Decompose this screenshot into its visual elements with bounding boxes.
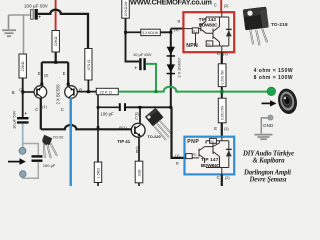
svg-text:C: C (135, 115, 138, 120)
svg-text:E: E (217, 51, 220, 56)
svg-text:(1): (1) (42, 105, 47, 109)
svg-text:(1): (1) (223, 52, 228, 56)
wire fb tap down to R5 (97, 95, 99, 162)
transistor Q2 BC556 (65, 86, 78, 99)
wire Q1 collector to TIP41 base (hop over blue) (41, 98, 132, 129)
resistor R1 22K (tail) (52, 31, 59, 53)
svg-text:8 ohm = 100W: 8 ohm = 100W (254, 75, 293, 81)
transistor Q1 BC556 (34, 86, 47, 99)
svg-text:DIY Audio Türkiye: DIY Audio Türkiye (242, 150, 294, 157)
svg-text:+: + (24, 111, 27, 116)
svg-text:(1): (1) (175, 154, 179, 158)
wire R3 to fb node (77, 80, 96, 92)
capacitor C4 10uF 63V (133, 52, 152, 71)
svg-text:(3): (3) (44, 74, 49, 78)
pin blob E Q1 (40, 83, 43, 86)
svg-text:R2: R2 (207, 42, 211, 46)
wire top rail with hop over red (38, 10, 88, 49)
svg-text:TO-220: TO-220 (148, 134, 161, 139)
TO-218 package icon (243, 7, 288, 46)
wire output node to R10 (221, 93, 223, 98)
svg-text:BDW84C: BDW84C (201, 163, 221, 169)
svg-text:100 pF: 100 pF (101, 111, 114, 116)
wire input bias (gray vertical to R2 22K) (23, 15, 25, 54)
svg-text:3.3 KΩ1W: 3.3 KΩ1W (142, 31, 159, 35)
wire R8 right to diode node and U1 base (160, 29, 183, 33)
wire diode node to U2 base (172, 107, 185, 158)
capacitor C3 100uF input (32, 155, 56, 168)
svg-text:1.5KΩ: 1.5KΩ (96, 168, 100, 179)
darlington U2 TIP147 (blue box) (185, 137, 235, 175)
speaker icon (276, 87, 300, 116)
wire ground to C1 (9, 14, 32, 16)
svg-text:10 µF 50V: 10 µF 50V (12, 110, 17, 129)
wire U1 emitter to R9 (221, 52, 223, 64)
svg-text:TO-92: TO-92 (53, 136, 64, 140)
svg-text:TIP 41: TIP 41 (117, 139, 130, 144)
svg-text:PNP: PNP (187, 139, 199, 145)
title text (242, 150, 294, 183)
wire U2 collector to bottom (221, 174, 223, 186)
svg-text:GND: GND (263, 123, 274, 128)
svg-text:2 X 1N4007: 2 X 1N4007 (177, 57, 181, 77)
capacitor C1 100uF 50V (24, 3, 48, 19)
svg-text:C: C (214, 3, 217, 8)
svg-text:(3): (3) (174, 28, 178, 32)
wire 100pF right to collector node (126, 106, 171, 108)
junction diode top (169, 31, 172, 34)
svg-text:100 µF: 100 µF (24, 3, 39, 8)
svg-text:0.33Ω 5W: 0.33Ω 5W (221, 106, 225, 120)
svg-text:B(1): B(1) (119, 125, 127, 130)
junction fb node (87, 90, 90, 93)
resistor R8 3.3K 1W (141, 29, 161, 35)
node input tip (19, 148, 26, 155)
red supply wire (left, +V) (55, 0, 57, 31)
junction TIP41 collector (139, 106, 142, 109)
svg-text:+: + (38, 14, 41, 19)
svg-text:2 X BC556: 2 X BC556 (56, 84, 61, 105)
wire C4 to output (green) (146, 64, 156, 92)
wire branch to C3 (23, 144, 39, 156)
svg-text:0.33Ω 5W: 0.33Ω 5W (221, 70, 225, 84)
svg-text:50V: 50V (40, 4, 48, 9)
resistor R5 1.5K (94, 162, 101, 183)
resistor R3 470 (85, 49, 92, 81)
svg-text:NPN: NPN (186, 43, 198, 49)
svg-text:R2: R2 (210, 140, 214, 144)
wire base node to C2 (22, 92, 24, 117)
svg-text:E: E (38, 71, 41, 76)
resistor R4 22K feedback (96, 88, 118, 94)
wire TIP41 emitter (138, 137, 140, 161)
junction tail (54, 61, 57, 64)
svg-text:22KΩ: 22KΩ (20, 61, 25, 71)
svg-text:TO-218: TO-218 (271, 22, 288, 27)
wire speaker gnd (261, 118, 270, 134)
svg-text:15 KΩ1W: 15 KΩ1W (124, 1, 128, 17)
ground (input, top-left) (2, 15, 16, 36)
junction base Q1 (21, 91, 24, 94)
svg-text:33Ω: 33Ω (137, 169, 141, 176)
svg-text:E: E (214, 126, 217, 131)
wire Q2 collector (blue) (69, 98, 71, 186)
wire TIP41 collector (139, 107, 141, 123)
TO-92 package icon (42, 135, 63, 158)
svg-text:+: + (135, 66, 138, 71)
arrow to speaker (262, 102, 271, 104)
svg-text:C: C (61, 107, 64, 112)
svg-text:10 µF 63V: 10 µF 63V (133, 52, 152, 57)
svg-text:BDW83C: BDW83C (199, 23, 219, 29)
svg-text:100 µF: 100 µF (43, 163, 56, 168)
junction green tap (155, 90, 158, 93)
diodes D1 D2 2x1N4007 (167, 32, 182, 107)
svg-text:R1: R1 (193, 152, 197, 156)
svg-text:(3): (3) (224, 127, 229, 131)
svg-text:B: B (12, 90, 15, 95)
svg-text:E: E (63, 71, 66, 76)
wire R6 to bottom (138, 183, 140, 186)
junction 100pF tap (97, 106, 100, 109)
svg-text:22KΩ: 22KΩ (53, 36, 58, 46)
darlington U1 TIP142 (red box) (183, 12, 234, 52)
svg-text:R1: R1 (193, 29, 197, 33)
wire R8 left (126, 31, 141, 33)
svg-text:TIP 147: TIP 147 (201, 157, 219, 163)
pin blob E Q2 (67, 83, 70, 86)
wire R7 down to C4 (126, 18, 140, 61)
junction green output node (220, 90, 223, 93)
wire R10 to U2 emitter (221, 123, 223, 137)
svg-text:Devre Şeması: Devre Şeması (249, 176, 287, 183)
svg-text:WWW.CHEMOFAY.co.um: WWW.CHEMOFAY.co.um (130, 0, 212, 7)
wire C3 to input sleeve (23, 162, 38, 178)
svg-text:(2): (2) (224, 4, 229, 8)
arrow input (8, 161, 20, 163)
resistor R6 33ohm (135, 161, 143, 183)
transistor Q3 TIP41 (131, 123, 145, 137)
wire R2 to base node (22, 78, 24, 92)
svg-text:C: C (217, 175, 220, 180)
resistor R7 15K 1W (122, 0, 130, 18)
svg-text:& Kapibara: & Kapibara (253, 158, 286, 165)
resistor R9 0.33 5W (218, 64, 226, 87)
red supply wire U1 collector (220, 0, 222, 12)
wire R5 to bottom (97, 183, 99, 187)
svg-text:B: B (79, 87, 82, 92)
svg-text:(2): (2) (225, 176, 230, 180)
junction TIP41 base / R5 (97, 126, 100, 129)
node output terminal (green dot) (267, 87, 275, 95)
TO-220 package icon (145, 108, 172, 140)
ground (speaker) (255, 135, 273, 140)
svg-text:B: B (176, 160, 179, 165)
node speaker gnd (268, 115, 273, 120)
wire 100pF left (98, 106, 119, 108)
svg-text:(2): (2) (19, 88, 24, 92)
resistor R10 0.33 5W (218, 98, 226, 123)
capacitor C5 100pF (101, 103, 127, 116)
node input sleeve (20, 171, 26, 177)
capacitor C2 10uF 50V (12, 110, 29, 129)
svg-text:TIP 142: TIP 142 (199, 17, 217, 23)
resistor R2 22K (input bias) (19, 54, 26, 78)
junction diode bottom (169, 106, 172, 109)
svg-text:C: C (35, 107, 38, 112)
wire green feedback/output line with hop (118, 87, 267, 92)
junction R7/R8 (124, 31, 127, 34)
svg-text:4 ohm = 150W: 4 ohm = 150W (254, 68, 293, 74)
svg-text:470 Ω: 470 Ω (86, 60, 91, 71)
wire emitter tee of BC556 pair (42, 52, 68, 86)
wire C2 to input tip (blue-gray) (22, 124, 24, 148)
wire R9 to output node (221, 87, 223, 91)
svg-text:22 K Ω: 22 K Ω (100, 89, 112, 94)
svg-text:B: B (178, 18, 181, 23)
wire base Q1 (23, 91, 35, 93)
